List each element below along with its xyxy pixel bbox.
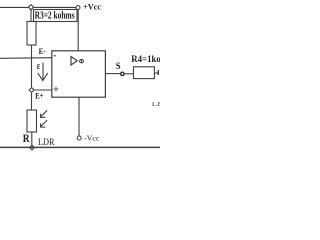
svg-text:R: R [23, 133, 30, 145]
svg-text:+Vcc: +Vcc [83, 3, 101, 12]
svg-text:LDR: LDR [38, 137, 55, 148]
svg-text:R4=1kohm: R4=1kohm [131, 54, 160, 65]
svg-text:E-: E- [39, 47, 46, 56]
svg-text:E+: E+ [35, 91, 43, 100]
svg-text:ε: ε [37, 61, 41, 72]
svg-text:-Vcc: -Vcc [84, 134, 100, 143]
svg-text:L.E.D: L.E.D [152, 101, 160, 108]
svg-text:R3=2 kohms: R3=2 kohms [35, 10, 75, 21]
svg-text:S: S [116, 61, 121, 72]
